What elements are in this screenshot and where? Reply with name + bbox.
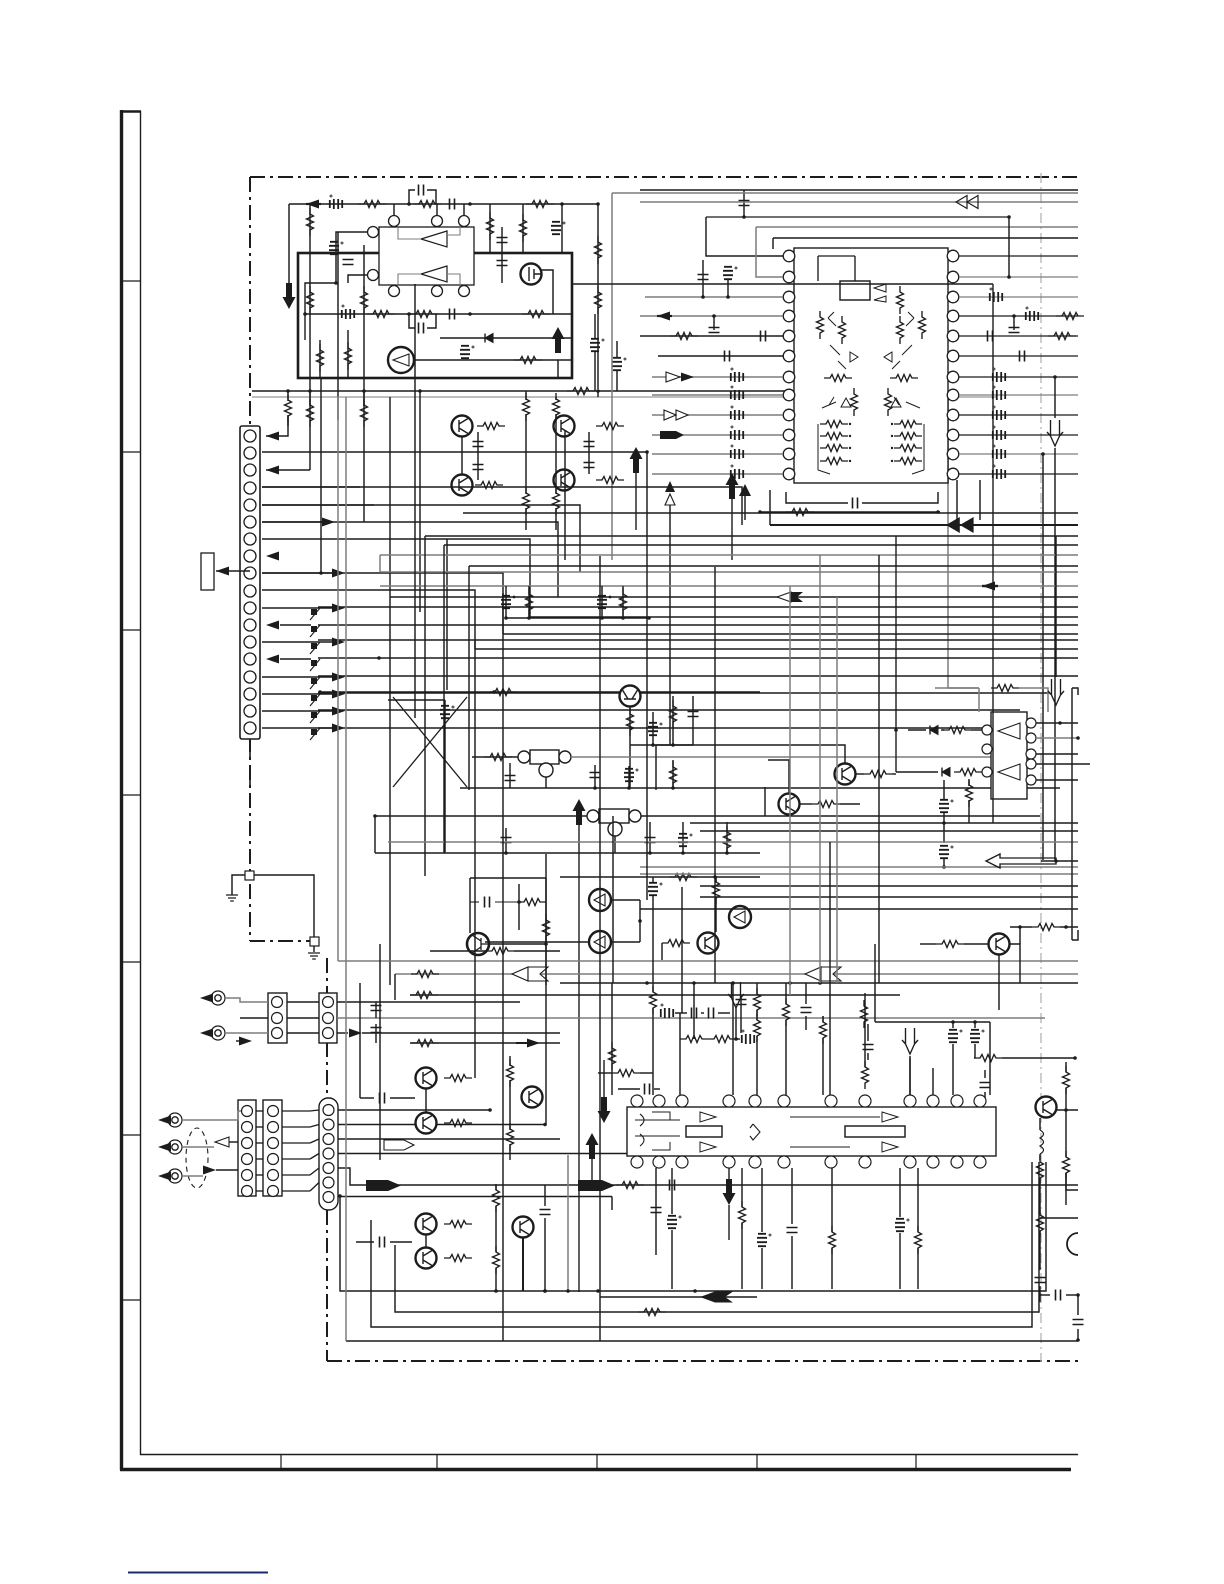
wire xyxy=(1013,316,1015,330)
junction xyxy=(494,1289,498,1293)
wire xyxy=(282,1174,310,1176)
wire xyxy=(908,729,926,731)
resistor R44 xyxy=(954,769,982,776)
junction xyxy=(849,447,851,449)
capacitor C4 xyxy=(329,242,343,254)
wire pin row r297 xyxy=(959,296,1078,298)
hollow arrow down xyxy=(1047,420,1063,446)
junction xyxy=(334,281,338,285)
pin CN6-2 xyxy=(323,1119,334,1130)
internal switch xyxy=(892,345,912,369)
wire xyxy=(785,983,787,1004)
wire xyxy=(375,815,587,817)
wire bus gray xyxy=(338,960,1078,962)
wire xyxy=(216,1169,238,1171)
wire pin4 xyxy=(640,315,783,317)
pin U4 top 12 xyxy=(974,1095,986,1107)
junction xyxy=(621,616,625,620)
buffer circle Q12 xyxy=(729,906,751,928)
resistor R50 xyxy=(444,1120,472,1127)
resistor R1 xyxy=(358,201,386,208)
wire xyxy=(485,941,589,943)
arrow out CN1-9 xyxy=(332,569,345,578)
wire vertical xyxy=(789,586,791,995)
capacitor C12 xyxy=(698,275,709,280)
wire pin row 435 xyxy=(652,434,783,436)
ground xyxy=(308,953,320,959)
wire xyxy=(652,712,654,745)
junction xyxy=(651,743,655,747)
capacitor C16 xyxy=(853,498,858,509)
wire xyxy=(356,1241,374,1243)
junction xyxy=(596,1289,600,1293)
resistor R55 xyxy=(680,1036,708,1043)
internal resistor xyxy=(824,375,852,382)
wire xyxy=(628,766,630,788)
pin U4 bottom 3 xyxy=(676,1156,688,1168)
test point TP1 xyxy=(311,609,317,615)
wire xyxy=(652,1008,654,1095)
junction xyxy=(1054,859,1058,863)
wire xyxy=(336,232,368,283)
connector CN4 body xyxy=(238,1100,256,1196)
pin U2-13 xyxy=(947,468,959,480)
frame tick bottom 5 xyxy=(915,1454,917,1469)
wire bus gray xyxy=(395,973,1078,975)
capacitor C9 xyxy=(419,323,424,334)
junction xyxy=(818,981,822,985)
DL1 body xyxy=(530,750,559,764)
capacitor C33 xyxy=(939,846,953,858)
wire xyxy=(1065,1110,1067,1157)
wire xyxy=(743,190,745,217)
wire xyxy=(518,884,520,930)
connector CN1 body xyxy=(240,426,260,739)
junction xyxy=(681,851,685,855)
wire vertical xyxy=(652,910,654,983)
wire xyxy=(545,777,547,788)
wire xyxy=(952,1044,954,1095)
wire xyxy=(611,941,640,943)
connector CN2 body xyxy=(268,993,287,1043)
filled arrow behind xyxy=(791,592,803,602)
resistor R40 xyxy=(713,876,720,904)
wire bus xyxy=(390,596,1078,598)
resistor R28 xyxy=(523,393,530,421)
wire xyxy=(310,1110,319,1111)
DL1 end b xyxy=(559,751,571,763)
junction xyxy=(527,616,531,620)
resistor xyxy=(612,1070,640,1077)
wire xyxy=(840,803,860,805)
filled arrow right big xyxy=(578,1180,615,1191)
capacitor C14 xyxy=(709,328,720,333)
wire xyxy=(347,330,349,378)
wire vertical xyxy=(345,397,347,1341)
wire pin row r474 xyxy=(959,473,1078,475)
wire xyxy=(514,950,560,952)
resistor R24 xyxy=(477,423,505,430)
capacitor C21 xyxy=(440,706,454,718)
dash lead below connector xyxy=(249,739,251,790)
hollow arrow left on gray bus xyxy=(805,967,821,981)
internal pot xyxy=(894,397,920,408)
wire xyxy=(856,773,864,775)
junction xyxy=(712,314,716,318)
junction xyxy=(1064,925,1068,929)
wire xyxy=(262,572,332,574)
wire xyxy=(280,624,311,626)
wire xyxy=(948,687,979,689)
resistor xyxy=(543,914,550,942)
junction xyxy=(286,389,290,393)
wire row pin2 xyxy=(262,451,647,453)
internal resistor xyxy=(919,311,926,339)
wire xyxy=(655,1168,657,1255)
wire xyxy=(974,1022,976,1028)
wire to pin1 xyxy=(706,217,783,256)
capacitor C36 xyxy=(380,1093,385,1104)
wire corner drop xyxy=(443,545,445,853)
pin CN1-10 xyxy=(244,585,256,597)
wire net CN1-3 xyxy=(266,469,310,471)
wire pin5 xyxy=(640,335,783,337)
wire xyxy=(616,341,618,357)
diode D2 xyxy=(930,726,938,735)
wire nest loop 3 xyxy=(371,1162,1032,1327)
junction xyxy=(645,981,649,985)
wire xyxy=(736,1038,740,1040)
wire xyxy=(472,756,519,758)
wire op-amp out a xyxy=(447,222,460,235)
resistor loop xyxy=(991,685,1019,692)
wire xyxy=(756,1036,758,1095)
wire xyxy=(791,1168,793,1224)
hollow arrow down xyxy=(728,982,744,1008)
wire vertical xyxy=(502,593,504,692)
internal tri up xyxy=(841,398,851,407)
junction xyxy=(849,460,851,462)
capacitor C17 xyxy=(473,442,484,447)
wire xyxy=(390,1241,412,1243)
wire xyxy=(756,1010,758,1020)
wire xyxy=(998,955,1000,1010)
wire xyxy=(941,729,944,731)
resistor R34 xyxy=(489,689,517,696)
wire bus xyxy=(756,226,1078,228)
wire xyxy=(1019,688,1048,712)
wire xyxy=(440,337,572,339)
capacitor xyxy=(670,1180,675,1191)
wire xyxy=(735,1008,737,1039)
wire xyxy=(489,204,491,253)
wire corner drop xyxy=(424,536,426,876)
resistor R45 xyxy=(864,771,892,778)
pin CN1-15 xyxy=(244,671,256,683)
internal resistor xyxy=(851,388,858,416)
wire xyxy=(899,1168,901,1217)
pin U2-6 xyxy=(783,350,795,362)
wire op-amp out b xyxy=(447,274,460,288)
wire xyxy=(1036,737,1078,739)
wire pin3 xyxy=(645,296,783,298)
wire xyxy=(427,314,436,328)
junction xyxy=(373,814,377,818)
wire xyxy=(669,505,671,745)
arrow out CN1-18 xyxy=(332,724,345,733)
wire xyxy=(256,1174,263,1176)
wire xyxy=(1039,1231,1041,1270)
capacitor C47 xyxy=(970,1030,984,1042)
resistor xyxy=(966,779,973,807)
wire net CN1-4 route xyxy=(262,487,742,525)
wire xyxy=(594,765,596,788)
hollow arrow left xyxy=(215,1137,229,1147)
wire xyxy=(862,492,938,503)
pin CN1-13 xyxy=(244,636,256,648)
capacitor C31 xyxy=(648,883,662,895)
wire net CN1-16 route xyxy=(318,692,1050,694)
DL2 body xyxy=(599,809,629,823)
resistor xyxy=(739,1201,746,1229)
pin U1-2 xyxy=(432,216,443,227)
resistor xyxy=(783,998,790,1026)
junction xyxy=(713,875,717,879)
arrow out CN1-16 xyxy=(332,690,345,699)
wire xyxy=(992,283,994,285)
resistor R15 xyxy=(317,344,324,372)
wire xyxy=(672,760,674,788)
capacitor CCe13 xyxy=(993,445,1005,459)
wire gray drop xyxy=(947,391,949,688)
wire xyxy=(1040,1294,1050,1296)
wire xyxy=(390,1097,415,1099)
pin CN5-6 xyxy=(268,1186,279,1197)
wire xyxy=(920,943,936,945)
DL2 end a xyxy=(587,810,599,822)
transistor Q16 xyxy=(416,1068,437,1089)
wire xyxy=(310,1139,319,1143)
hollow arrow left on gray bus xyxy=(512,967,528,981)
resistor R32 xyxy=(526,588,533,616)
capacitor C25 xyxy=(590,773,601,778)
wire xyxy=(656,745,845,790)
wire xyxy=(362,1032,560,1034)
frame tick bottom 4 xyxy=(756,1454,758,1469)
resistor R52 xyxy=(507,1123,514,1151)
wire xyxy=(310,1125,319,1128)
junction xyxy=(593,786,597,790)
wire bus xyxy=(444,544,1078,546)
wire bus xyxy=(503,633,1078,635)
wire xyxy=(310,1183,319,1192)
bus arrow up xyxy=(630,447,643,473)
pin U2-2 xyxy=(783,271,795,283)
capacitor CCe5 xyxy=(731,445,743,459)
wire xyxy=(831,1168,833,1232)
capacitor C45 xyxy=(801,1008,812,1013)
wire vertical xyxy=(599,556,601,1341)
resistor R47 xyxy=(936,941,964,948)
junction xyxy=(543,1289,547,1293)
transistor Q17 xyxy=(416,1113,437,1134)
wire xyxy=(256,1158,263,1160)
wire xyxy=(309,391,311,406)
wire xyxy=(594,352,596,391)
resistor xyxy=(829,1226,836,1254)
wire vertical xyxy=(878,555,880,983)
wire xyxy=(622,586,624,618)
wire xyxy=(425,1089,427,1112)
page frame bottom thick border xyxy=(120,1468,1071,1471)
junction xyxy=(936,510,940,514)
wire xyxy=(641,815,1040,817)
pin U4 top 11 xyxy=(951,1095,963,1107)
junction xyxy=(726,295,730,299)
wire xyxy=(731,499,733,560)
wire xyxy=(603,1060,605,1097)
resistor R9 xyxy=(595,236,602,264)
wire xyxy=(505,586,507,618)
wire xyxy=(282,1190,310,1192)
junction xyxy=(362,389,366,393)
wire xyxy=(337,1001,520,1003)
transistor Q20 xyxy=(416,1248,437,1269)
wire net mid xyxy=(305,313,572,315)
resistor xyxy=(410,992,438,999)
junction xyxy=(647,616,651,620)
wire net CN1-5 route xyxy=(262,505,580,572)
wire xyxy=(943,780,945,799)
hollow arrow left xyxy=(777,592,791,602)
wire xyxy=(1036,722,1078,724)
wire bus xyxy=(469,565,1078,567)
pin U2-22 xyxy=(947,291,959,303)
resistor R17 xyxy=(285,394,292,422)
wire xyxy=(525,391,527,400)
wire xyxy=(611,1197,613,1211)
IC U4 body xyxy=(627,1107,996,1156)
capacitor C55 xyxy=(1073,1320,1084,1325)
DL2 tap xyxy=(608,822,622,836)
connector CN6 body xyxy=(319,1098,338,1210)
internal block xyxy=(845,1126,905,1137)
ground lug node A xyxy=(245,871,254,880)
pin U3 right 754 xyxy=(1026,749,1036,759)
DL2 end b xyxy=(629,810,641,822)
wire xyxy=(629,707,631,788)
wire xyxy=(616,371,618,391)
pin U1-8 xyxy=(368,227,379,238)
capacitor C41 xyxy=(692,1008,697,1019)
wire xyxy=(702,260,704,297)
wire pin row r377 xyxy=(959,376,1078,378)
wire net CN1-7 route xyxy=(262,539,530,617)
junction xyxy=(1008,755,1012,759)
pin CN1-18 xyxy=(244,722,256,734)
wire xyxy=(899,1233,901,1289)
wire vertical xyxy=(874,944,876,1022)
wire xyxy=(682,822,684,853)
wire net CN1-17 route xyxy=(318,709,1020,711)
wire net CN1-1 xyxy=(266,416,288,436)
wire vertical xyxy=(474,640,476,1078)
wire xyxy=(618,1088,640,1090)
internal resistor xyxy=(890,375,918,382)
wire vertical xyxy=(714,567,716,983)
pin CN1-1 xyxy=(244,430,256,442)
wire bus gray xyxy=(380,554,1078,556)
junction xyxy=(768,1149,772,1153)
wire row xyxy=(320,691,760,693)
junction xyxy=(742,215,746,219)
resistor R43 xyxy=(943,727,971,734)
wire xyxy=(875,1021,990,1023)
wire vertical xyxy=(444,790,446,853)
pin CN5-1 xyxy=(268,1106,279,1117)
wire stair vertical xyxy=(320,378,322,573)
wire net CN1-12 route xyxy=(318,624,1078,626)
resistor xyxy=(754,988,761,1016)
pin U4 top 6 xyxy=(778,1095,790,1107)
filled arrow up small xyxy=(739,484,751,496)
wire xyxy=(1036,763,1090,765)
wire to ground xyxy=(232,875,245,895)
wire xyxy=(1077,1329,1079,1340)
wire xyxy=(805,983,807,1004)
wire vertical xyxy=(337,397,339,961)
capacitor C52 xyxy=(895,1219,909,1231)
arrow into CN1-8 xyxy=(266,552,279,561)
pin U4 bottom 4 xyxy=(723,1156,735,1168)
wire long gray xyxy=(337,1017,1045,1019)
pin U4 bottom 8 xyxy=(859,1156,871,1168)
internal resistor xyxy=(885,388,892,416)
resistor R27 xyxy=(596,477,624,484)
pin CN3-2 xyxy=(323,1013,334,1024)
resistor R12 xyxy=(410,311,438,318)
wire xyxy=(495,1206,497,1252)
wire xyxy=(374,816,376,853)
wire vertical xyxy=(359,983,361,1098)
shield boundary left dash-dot upper xyxy=(249,177,251,876)
regulator Q2 (circle symbol) xyxy=(388,347,414,373)
wire pin row r356 xyxy=(959,355,1078,357)
wire xyxy=(236,1040,240,1042)
frame tick left 2 xyxy=(121,451,141,453)
wire vertical xyxy=(979,480,981,520)
internal buffer xyxy=(700,1142,716,1152)
wire drain xyxy=(541,270,553,314)
wire xyxy=(310,1154,319,1160)
junction xyxy=(319,571,323,575)
resistor xyxy=(862,1116,869,1144)
pin CN1-17 xyxy=(244,705,256,717)
capacitor C26 xyxy=(624,769,638,781)
junction xyxy=(303,312,307,316)
wire arrow shaft xyxy=(306,203,321,205)
capacitor CCe10 xyxy=(993,386,1005,400)
wire xyxy=(360,1097,374,1099)
bus arrow up xyxy=(726,473,739,499)
wire xyxy=(363,245,365,522)
wire xyxy=(744,496,746,520)
wire gray drop xyxy=(611,193,613,560)
filled arrow right big xyxy=(366,1180,401,1191)
arrow out CN1-13 xyxy=(332,638,345,647)
wire bus feed xyxy=(252,390,948,392)
wire net CN1-15 route xyxy=(318,675,1078,677)
